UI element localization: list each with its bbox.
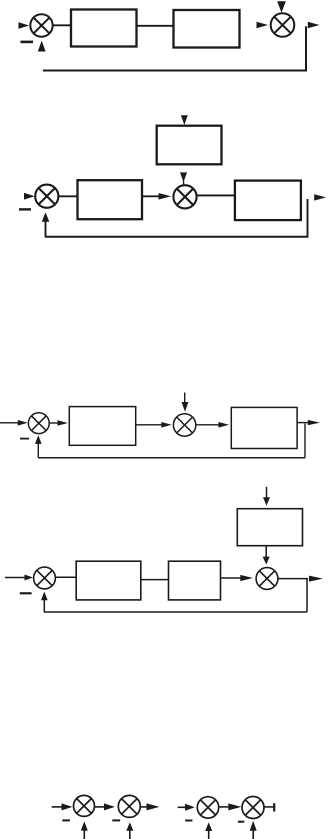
minus sign at S7 <box>20 592 32 594</box>
wire G8 to S8 with arrowhead <box>221 577 242 579</box>
input arrowhead into S7 <box>25 575 34 581</box>
block G2 <box>174 10 240 48</box>
summing junction S6 <box>173 414 195 436</box>
minus sign at SB <box>112 819 120 821</box>
input arrowhead into summer S3 <box>24 193 35 200</box>
output wire of SD <box>264 806 274 808</box>
wire S5 to block G5 with arrowhead <box>49 422 58 424</box>
input wire into S7 <box>5 577 26 579</box>
wire S4 to block G4 <box>197 194 235 196</box>
feedback arrowhead into S3 bottom <box>42 212 50 222</box>
input arrowhead into SA <box>62 803 73 810</box>
feedback wire vertical up into S3 <box>45 221 47 238</box>
input wire into SC <box>178 806 186 808</box>
summing junction SC <box>197 797 218 818</box>
block G6 <box>231 407 297 448</box>
disturbance wire into S6 top <box>184 393 186 404</box>
block G4 <box>235 181 301 221</box>
wire S6 to block G6 with arrowhead <box>196 424 219 426</box>
minus sign at SC <box>185 820 192 822</box>
wire D4 down to S8 <box>265 546 267 558</box>
output arrowhead of diagram 1 <box>308 22 320 28</box>
output arrowhead of diagram 3 <box>308 420 320 425</box>
minus sign at SD <box>238 821 244 823</box>
input wire into S5 <box>0 422 19 424</box>
output wire of diagram 3 <box>297 422 308 424</box>
up arrowhead into SA bottom <box>81 821 88 830</box>
minus sign at S1 <box>21 41 34 44</box>
wire up into SD (from bottom edge) <box>252 830 254 839</box>
wire S1 to block G1 <box>53 24 72 26</box>
output end bar of SD <box>273 803 275 811</box>
wire up into SA (from bottom edge) <box>83 830 85 839</box>
summing junction S8 <box>256 568 278 590</box>
summing junction S7 <box>34 567 56 589</box>
disturbance arrowhead into S6 top <box>182 402 189 412</box>
block G5 <box>69 407 135 446</box>
feedback arrowhead into S5 bottom <box>35 435 42 444</box>
summing junction SD <box>242 797 264 819</box>
input arrowhead into S5 <box>18 420 28 426</box>
block G7 <box>76 561 141 600</box>
block D2 (disturbance) <box>157 126 222 165</box>
block G3 <box>78 180 143 219</box>
summing junction SA <box>74 795 95 816</box>
minus sign at SA <box>62 819 70 821</box>
wire G3 to S4 with arrowhead <box>142 195 159 197</box>
output wire of SB with arrowhead <box>140 806 147 808</box>
up arrowhead into SB bottom <box>126 822 133 831</box>
feedback wire vertical (diagram 4) <box>306 579 308 612</box>
summing junction S3 <box>35 185 58 208</box>
wire G5 to S6 with arrowhead <box>136 424 162 426</box>
feedback wire vertical (diagram 1) <box>305 26 307 70</box>
input wire into SA <box>52 806 63 808</box>
feedback wire horizontal (diagram 3) <box>38 457 305 459</box>
minus sign at S5 <box>20 438 29 440</box>
up arrowhead into SC bottom <box>205 822 212 831</box>
disturbance arrowhead into top block D2 <box>181 115 188 125</box>
output arrowhead of diagram 2 <box>314 194 326 200</box>
wire G1 to G2 <box>137 25 174 27</box>
feedback wire vertical up into S7 <box>43 600 45 613</box>
summing junction S4 <box>173 185 196 208</box>
feedback wire horizontal (diagram 1) <box>43 70 307 72</box>
input arrowhead into summer S1 <box>19 22 30 29</box>
summing junction S1 <box>30 14 52 36</box>
wire SC to SD with arrowhead <box>219 806 229 808</box>
block G8 <box>169 561 221 600</box>
arrow D2 to summer S4 <box>180 172 187 185</box>
block G1 <box>71 10 137 47</box>
wire S3 to block G3 <box>58 195 77 197</box>
disturbance arrow into S2 top <box>277 1 286 13</box>
feedback arrowhead into S1 bottom <box>38 41 46 52</box>
feedback arrowhead into S7 bottom <box>41 592 48 601</box>
arrowhead into summer S2 <box>257 22 269 28</box>
block D4 (disturbance) <box>237 509 302 546</box>
feedback wire horizontal (diagram 4) <box>44 611 307 613</box>
summing junction S2 <box>271 13 295 37</box>
minus sign at S3 <box>19 208 31 210</box>
up arrowhead into SD bottom <box>250 821 257 831</box>
feedback wire vertical (diagram 3) <box>304 424 306 458</box>
wire up into SC (from bottom edge) <box>208 830 210 839</box>
wire S7 to block G7 <box>55 576 76 578</box>
arrowhead into S8 top <box>263 557 270 565</box>
feedback wire vertical up into S5 <box>37 443 39 458</box>
input arrowhead into SC <box>185 804 195 811</box>
wire G7 to G8 <box>141 579 169 581</box>
feedback wire horizontal (diagram 2) <box>46 236 309 238</box>
disturbance wire into top block D4 <box>266 487 268 499</box>
summing junction SB <box>118 795 140 817</box>
disturbance arrowhead into D4 <box>263 497 270 506</box>
wire up into SB (from bottom edge) <box>129 830 131 839</box>
output arrowhead of diagram 4 <box>309 576 323 582</box>
summing junction S5 <box>28 413 49 434</box>
feedback wire vertical (diagram 2) <box>307 199 309 237</box>
wire SA to SB with arrowhead <box>95 806 105 808</box>
output wire of diagram 4 <box>278 578 308 580</box>
